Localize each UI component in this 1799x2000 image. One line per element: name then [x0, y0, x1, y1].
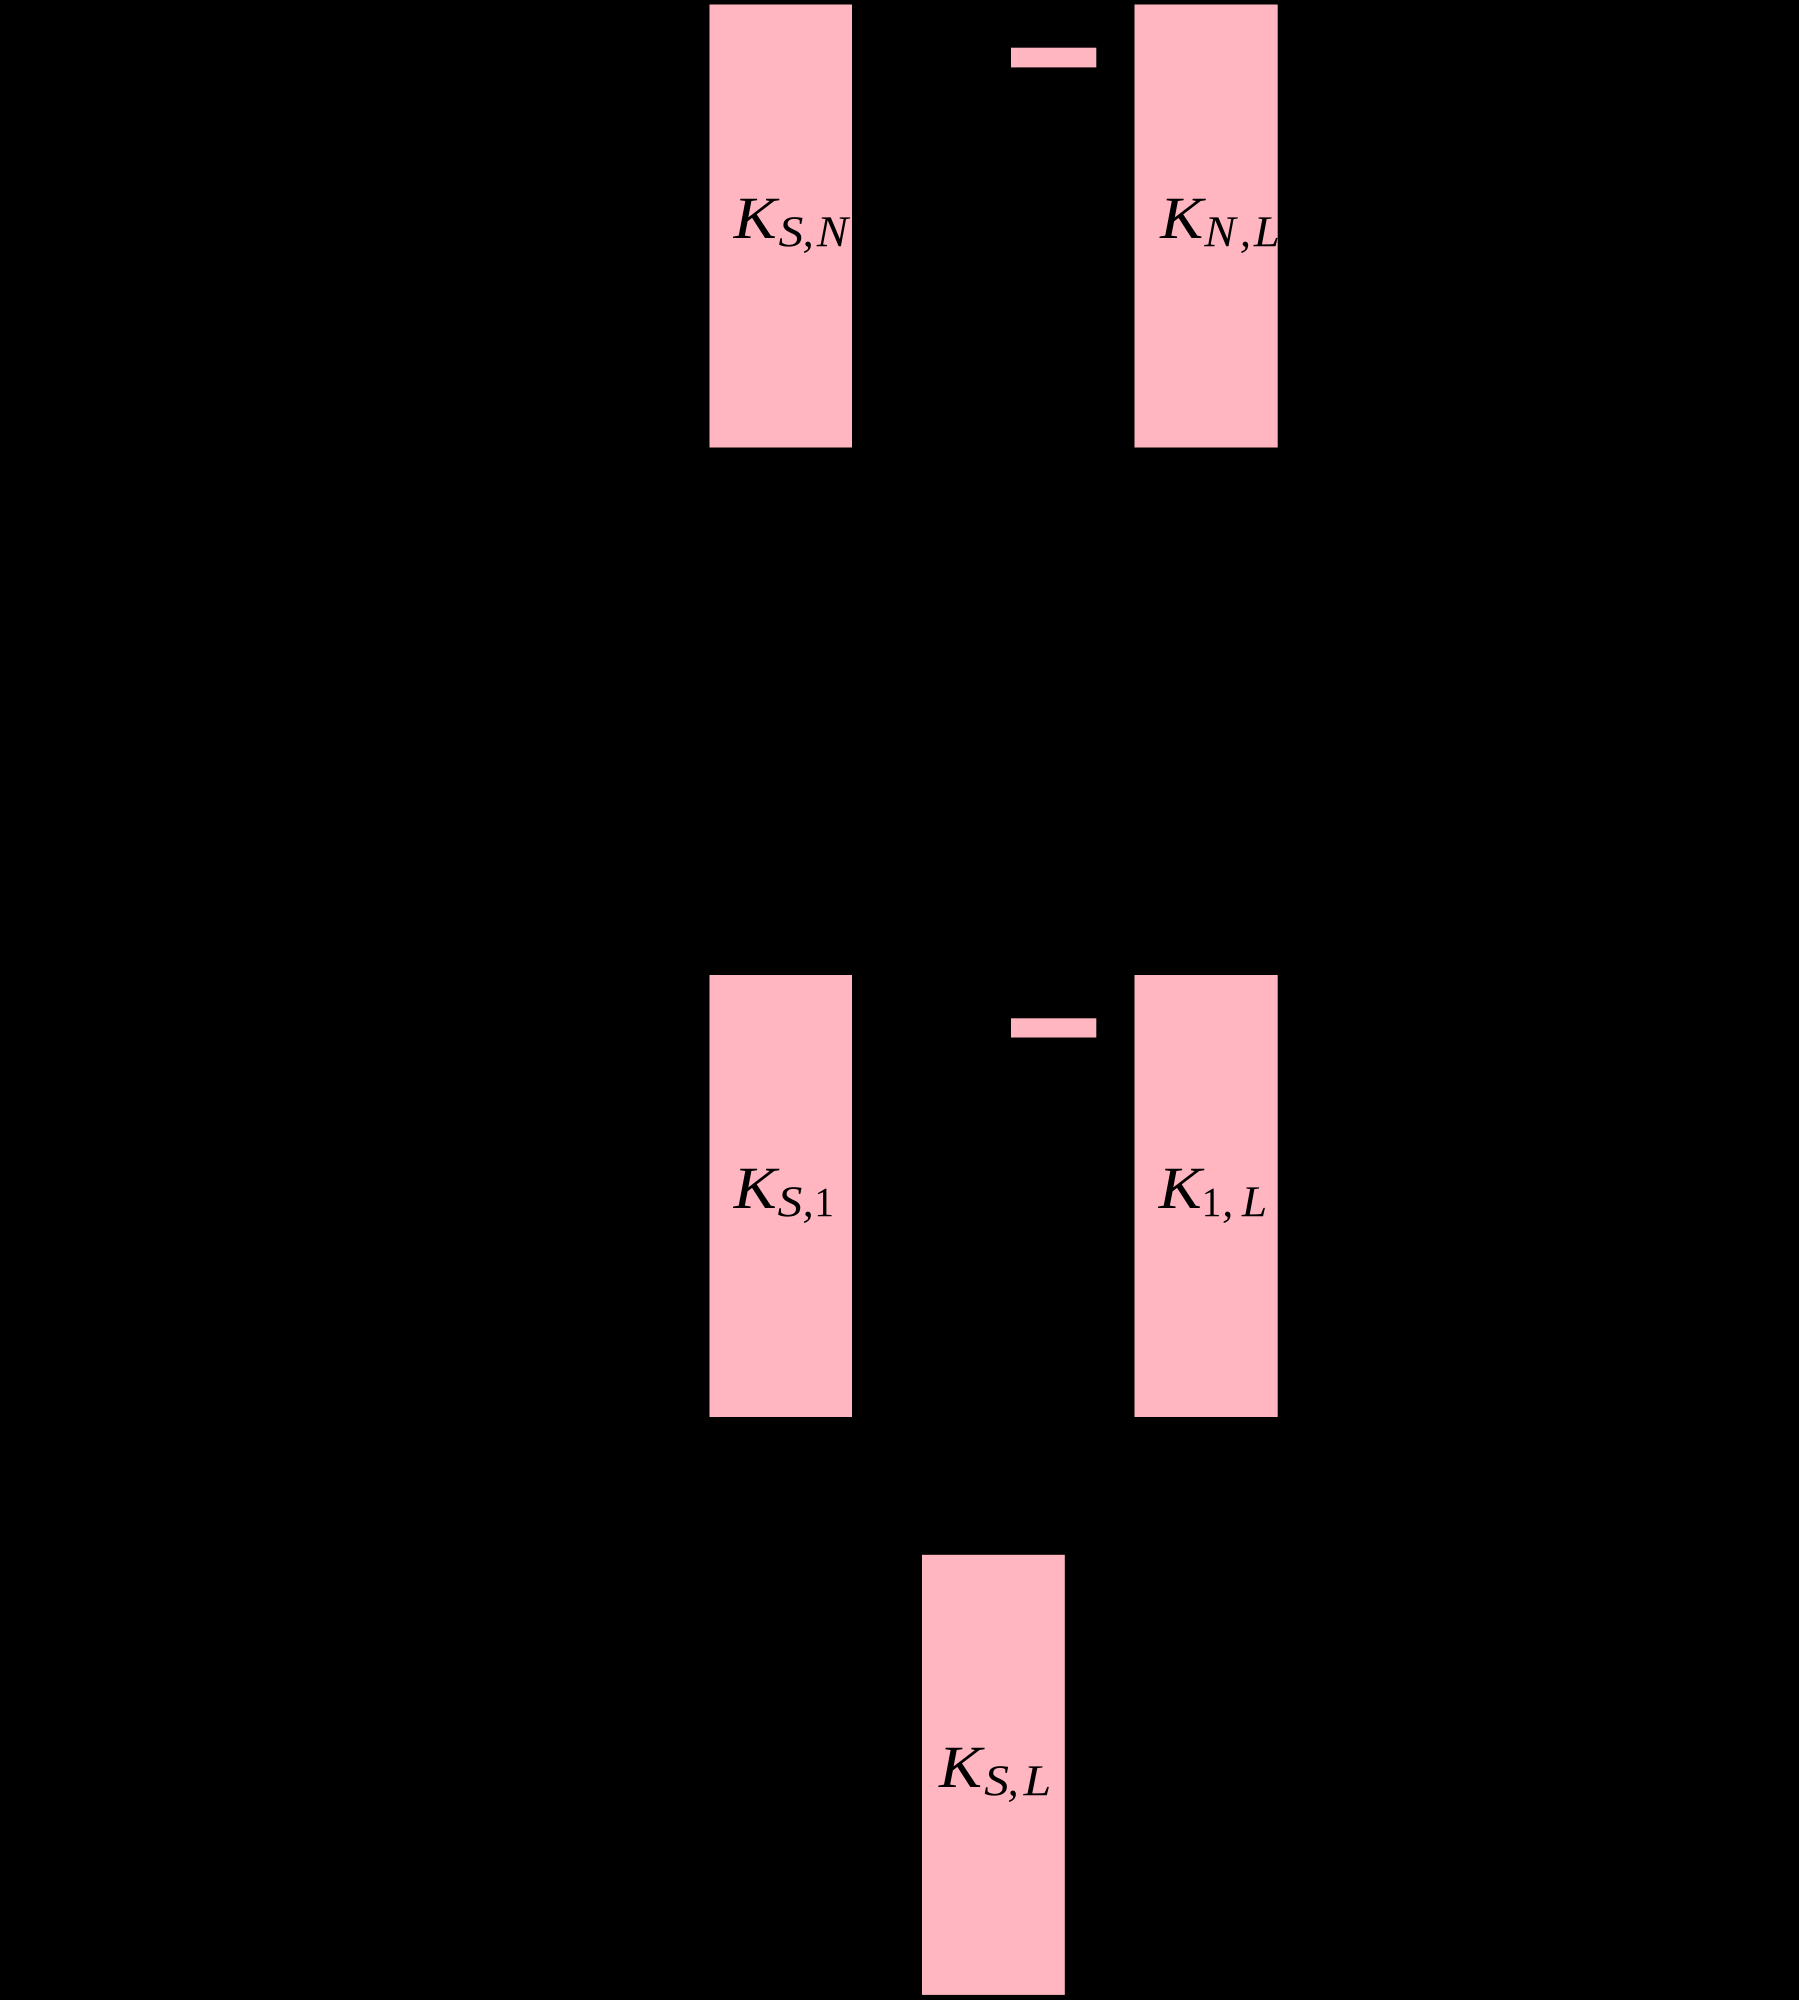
matrix bar K_S,1	[710, 975, 853, 1417]
matrix bar K_1,L	[1135, 975, 1278, 1417]
matrix bar K_S,L	[922, 1555, 1065, 1995]
matrix bar K_N,L	[1135, 5, 1278, 448]
label K_S,N	[733, 199, 850, 253]
label K_N,L	[1159, 199, 1277, 253]
label K_S,L	[938, 1748, 1049, 1802]
minus sign (middle row)	[1011, 1018, 1096, 1037]
label K_S,1	[733, 1169, 832, 1223]
minus sign (top row)	[1011, 48, 1096, 68]
matrix bar K_S,N	[710, 5, 853, 448]
label K_1,L	[1158, 1169, 1265, 1223]
